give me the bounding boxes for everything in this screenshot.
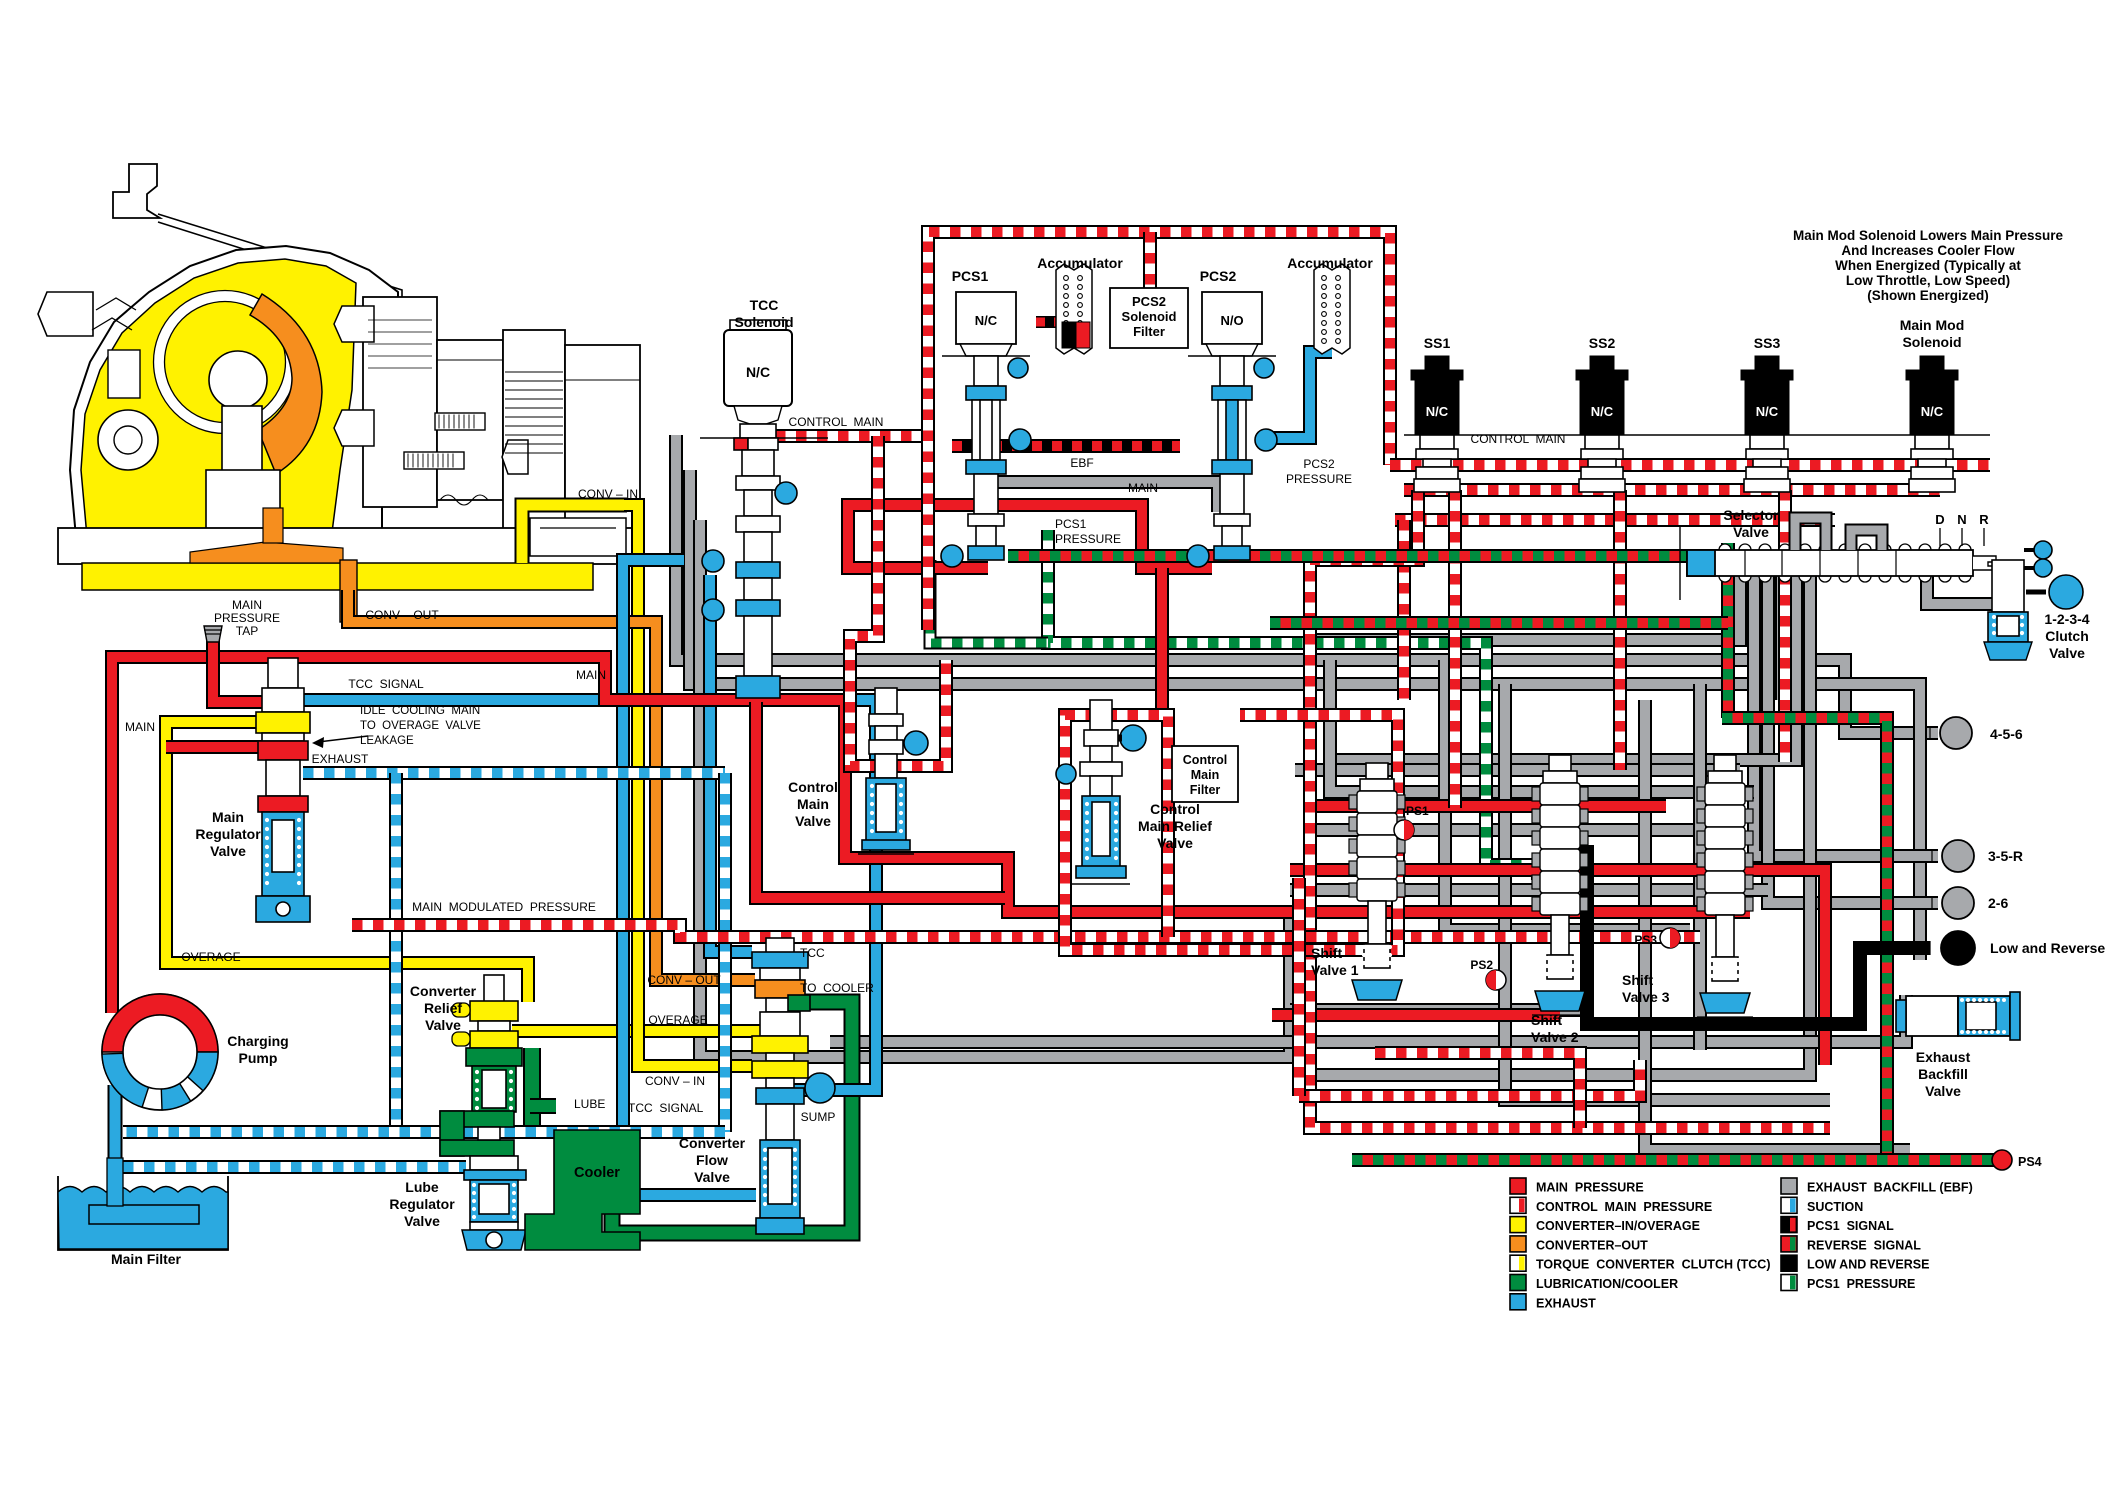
wire red SV2 y1015 [1272, 1008, 1560, 1022]
wire control main mid drop [1143, 232, 1157, 318]
wire suction dashed bottom [123, 1125, 725, 1139]
svg-text:Pump: Pump [239, 1050, 278, 1066]
svg-text:SS1: SS1 [1424, 335, 1451, 351]
wire exhaust dashed vert x725 [718, 773, 732, 1132]
svg-text:LEAKAGE: LEAKAGE [360, 735, 414, 747]
svg-text:TCC SIGNAL: TCC SIGNAL [628, 1101, 704, 1115]
valve 1-2-3-4 Clutch [1984, 541, 2083, 660]
svg-text:PCS1: PCS1 [952, 268, 989, 284]
circle Low and Reverse [1930, 931, 1975, 965]
svg-text:OVERAGE: OVERAGE [181, 950, 240, 964]
wire exhaust dashed vert x396 [389, 773, 403, 1132]
wire gray vert x1700 [1693, 684, 1707, 1050]
svg-text:Converter: Converter [410, 983, 477, 999]
solenoid PCS1 [941, 292, 1031, 567]
wire gray selector drop 3-5-R [1754, 576, 1938, 856]
valve Converter Flow [752, 938, 835, 1234]
svg-text:N/O: N/O [1220, 313, 1243, 328]
svg-text:CONV – OUT: CONV – OUT [365, 608, 439, 622]
svg-text:Solenoid: Solenoid [1122, 309, 1177, 324]
wire gray mid y770 [1295, 763, 1740, 777]
wire gray clutch valve feed [1927, 576, 1994, 604]
sensor PS3 [1660, 928, 1680, 948]
wire red MAIN to regulator [213, 655, 270, 702]
wire red tap stub [206, 640, 220, 658]
wire PCS1 pressure around PCS1 [930, 560, 1048, 643]
solenoid rail line [1404, 434, 1990, 436]
svg-text:Regulator: Regulator [195, 826, 261, 842]
torque converter cross-section [38, 164, 640, 622]
svg-text:Exhaust: Exhaust [1916, 1049, 1971, 1065]
svg-text:Main: Main [1191, 768, 1219, 782]
wire gray selector drop A [1310, 576, 1740, 770]
main pressure tap [204, 626, 222, 642]
svg-text:PS3: PS3 [1634, 933, 1657, 947]
svg-text:3-5-R: 3-5-R [1988, 848, 2023, 864]
wire PCS1 signal accumulator [1036, 322, 1064, 342]
svg-text:Filter: Filter [1133, 324, 1165, 339]
svg-text:MAIN: MAIN [125, 720, 155, 734]
wire gray selector drop B [1335, 576, 1796, 760]
labels right area [1424, 228, 2106, 1099]
sensor PS2 [1486, 970, 1506, 990]
wire gray mid y890 [1290, 883, 1768, 897]
svg-text:EXHAUST: EXHAUST [312, 752, 369, 766]
solenoid TCC [700, 320, 828, 698]
legend [1510, 1178, 1973, 1310]
svg-text:EBF: EBF [1070, 456, 1093, 470]
svg-text:Lube: Lube [405, 1179, 439, 1195]
svg-text:N/C: N/C [975, 313, 998, 328]
svg-text:Valve: Valve [694, 1169, 730, 1185]
svg-text:Main Mod: Main Mod [1900, 317, 1965, 333]
wire control main valve loop [850, 436, 946, 766]
wire gray mid y930 [1445, 660, 1690, 930]
svg-text:Main Relief: Main Relief [1138, 818, 1212, 834]
wire control main TCC [775, 429, 928, 443]
svg-text:TCC: TCC [750, 297, 779, 313]
valve Converter Relief [452, 975, 522, 1112]
svg-text:Valve: Valve [1157, 835, 1193, 851]
svg-text:EXHAUST: EXHAUST [1536, 1296, 1596, 1310]
svg-text:Main Filter: Main Filter [111, 1251, 182, 1267]
svg-text:N: N [1957, 512, 1966, 527]
wire yellow OVERAGE to flow valve [512, 1031, 760, 1040]
wire red MAIN trunk [112, 657, 1750, 1013]
accumulator 2 [1314, 264, 1350, 354]
wire gray mid y830 [1305, 823, 1725, 837]
valve Shift 2 [1532, 755, 1588, 1015]
svg-text:TCC: TCC [800, 946, 825, 960]
wire exhaust dashed loop top [303, 766, 725, 780]
svg-text:CONV – IN: CONV – IN [645, 1074, 705, 1088]
solenoid SS2 [1576, 356, 1628, 492]
svg-text:Main: Main [212, 809, 244, 825]
valve Control Main Relief [1056, 700, 1146, 884]
wire reverse signal y623 [1270, 616, 1728, 630]
svg-text:PS2: PS2 [1470, 958, 1493, 972]
svg-text:Low Throttle, Low Speed): Low Throttle, Low Speed) [1846, 273, 2010, 288]
svg-text:CONVERTER–IN/OVERAGE: CONVERTER–IN/OVERAGE [1536, 1219, 1700, 1233]
wire main modulated pressure [352, 925, 1700, 937]
circle 3-5-R [1932, 840, 1974, 872]
svg-text:Control: Control [788, 779, 838, 795]
wire control main SS row [1390, 458, 1990, 472]
wire blue exhaust x623 [623, 560, 756, 1195]
svg-text:Valve: Valve [425, 1017, 461, 1033]
svg-text:Selector: Selector [1723, 507, 1779, 523]
svg-text:N/C: N/C [1756, 404, 1779, 419]
svg-text:Control: Control [1183, 753, 1227, 767]
wire gray mid y792 [1330, 660, 1754, 792]
wire gray long y1075 [1296, 576, 1810, 1075]
svg-text:TORQUE CONVERTER CLUTCH (TCC: TORQUE CONVERTER CLUTCH (TCC) [1536, 1258, 1771, 1272]
wire gray mid y1010 [1290, 1003, 1587, 1017]
svg-text:PRESSURE: PRESSURE [214, 611, 280, 625]
wire reverse signal y540 [1008, 549, 1728, 563]
cooler [525, 1130, 640, 1250]
valve Shift 3 [1697, 755, 1753, 1017]
svg-text:TAP: TAP [236, 624, 258, 638]
wire PS4 line [1352, 1153, 1996, 1167]
arrow idle cooling [312, 736, 368, 748]
wire suction dashed to lube valve [123, 1160, 466, 1174]
wire green LUBE stub [530, 1098, 556, 1114]
svg-text:And Increases Cooler Flow: And Increases Cooler Flow [1841, 243, 2015, 258]
svg-text:Control: Control [1150, 801, 1200, 817]
wire control main to SV2 [1613, 490, 1627, 770]
svg-text:Regulator: Regulator [389, 1196, 455, 1212]
wire control main top loop [928, 232, 1390, 630]
box PCS2 Solenoid Filter [1110, 288, 1188, 348]
svg-text:PCS2: PCS2 [1200, 268, 1237, 284]
labels left area [111, 487, 874, 1267]
wire orange CONV-OUT [348, 590, 755, 980]
wire gray selector drop 2-6 [1768, 576, 1938, 903]
svg-text:TO OVERAGE VALVE: TO OVERAGE VALVE [360, 720, 481, 732]
svg-text:TO COOLER: TO COOLER [800, 981, 874, 995]
tank Main Filter [58, 1158, 228, 1250]
svg-text:Main: Main [797, 796, 829, 812]
solenoid SS1 [1411, 356, 1463, 492]
svg-text:Shift: Shift [1622, 972, 1653, 988]
wire blue TCC from solenoid [710, 575, 752, 952]
svg-text:TCC SIGNAL: TCC SIGNAL [348, 677, 424, 691]
pump Charging Pump [102, 994, 218, 1110]
wire red right y806 [1310, 799, 1666, 813]
svg-text:CONV – IN: CONV – IN [578, 487, 638, 501]
wire gray vert x1505 [1505, 684, 1830, 1100]
wire red MAIN short label [166, 740, 270, 754]
svg-text:PS1: PS1 [1406, 804, 1429, 818]
svg-text:Main Mod Solenoid Lowers Main: Main Mod Solenoid Lowers Main Pressure [1793, 228, 2064, 243]
svg-text:Cooler: Cooler [574, 1165, 620, 1181]
wire EBF gray long upper [676, 435, 1938, 733]
svg-text:2-6: 2-6 [1988, 895, 2008, 911]
svg-text:LUBRICATION/COOLER: LUBRICATION/COOLER [1536, 1277, 1678, 1291]
svg-text:CONV – OUT: CONV – OUT [647, 973, 721, 987]
wire control main to SV3 [1778, 490, 1792, 762]
svg-text:Relief: Relief [424, 1000, 462, 1016]
labels middle area [734, 255, 2041, 1169]
solenoid SS3 [1741, 356, 1793, 492]
wire EBF gray long lower [690, 470, 1920, 960]
svg-text:PCS1: PCS1 [1055, 517, 1087, 531]
circle PS4 [1992, 1150, 2012, 1170]
svg-text:PCS1 PRESSURE: PCS1 PRESSURE [1807, 1277, 1915, 1291]
wire yellow CONV-IN [624, 505, 752, 1066]
circle 2-6 [1932, 887, 1974, 919]
wire gray vert x1645 [1645, 700, 1910, 1150]
solenoid Main Mod [1906, 356, 1958, 492]
svg-text:IDLE COOLING MAIN: IDLE COOLING MAIN [360, 705, 480, 717]
wire exhaust dashed vert x396b [395, 1132, 397, 1135]
svg-text:N/C: N/C [746, 364, 770, 380]
accumulator 1 [1056, 264, 1092, 354]
valve Exhaust Backfill [1896, 992, 2020, 1040]
svg-text:N/C: N/C [1426, 404, 1449, 419]
circle 4-5-6 [1930, 717, 1972, 749]
svg-text:CONTROL MAIN PRESSURE: CONTROL MAIN PRESSURE [1536, 1200, 1712, 1214]
svg-text:MAIN PRESSURE: MAIN PRESSURE [1536, 1181, 1644, 1195]
svg-text:PS4: PS4 [2018, 1155, 2042, 1169]
svg-text:Low and Reverse: Low and Reverse [1990, 940, 2105, 956]
svg-text:Converter: Converter [679, 1135, 746, 1151]
wire control main bottom y1053 [1375, 1053, 1580, 1128]
wire gray long y1042 [830, 995, 1906, 1042]
wire control main row2 [1404, 483, 1940, 497]
valve Main Regulator [256, 658, 310, 922]
wire gray left sweep to shift valves [700, 520, 1290, 1057]
wire control main row3 [1395, 513, 1835, 527]
svg-text:N/C: N/C [1921, 404, 1944, 419]
svg-text:1-2-3-4: 1-2-3-4 [2044, 611, 2089, 627]
svg-text:Shift: Shift [1531, 1012, 1562, 1028]
svg-text:Valve 1: Valve 1 [1311, 962, 1359, 978]
svg-text:LUBE: LUBE [574, 1097, 605, 1111]
svg-text:EXHAUST BACKFILL (EBF): EXHAUST BACKFILL (EBF) [1807, 1181, 1973, 1195]
svg-text:MAIN: MAIN [232, 598, 262, 612]
svg-text:Valve: Valve [404, 1213, 440, 1229]
svg-text:Clutch: Clutch [2045, 628, 2089, 644]
svg-text:N/C: N/C [1591, 404, 1614, 419]
wire red right y870 [1290, 870, 1825, 1065]
svg-text:REVERSE SIGNAL: REVERSE SIGNAL [1807, 1238, 1921, 1252]
svg-text:Valve: Valve [795, 813, 831, 829]
wire blue TCC SIGNAL main-reg [300, 700, 876, 1090]
sensor PS1 [1394, 820, 1414, 840]
wire PCS1 signal column [979, 356, 993, 446]
wire gray EBF from PCS1 [985, 482, 1218, 512]
svg-text:CONTROL MAIN: CONTROL MAIN [789, 415, 884, 429]
wire red vert x1142 down [1155, 568, 1169, 715]
svg-text:Charging: Charging [227, 1033, 288, 1049]
svg-text:R: R [1979, 512, 1989, 527]
svg-text:Filter: Filter [1190, 783, 1221, 797]
svg-text:CONVERTER–OUT: CONVERTER–OUT [1536, 1238, 1648, 1252]
wire reverse signal selector vert [1721, 543, 1735, 718]
svg-text:PCS1 SIGNAL: PCS1 SIGNAL [1807, 1219, 1894, 1233]
svg-text:Solenoid: Solenoid [1902, 334, 1961, 350]
wire reverse signal main [1722, 718, 1887, 1160]
wire yellow OVERAGE left loop [166, 722, 528, 1002]
wire green TO COOLER [612, 1002, 852, 1233]
svg-text:PRESSURE: PRESSURE [1055, 532, 1121, 546]
svg-text:Valve: Valve [1925, 1083, 1961, 1099]
wire green relief-to-cooler [523, 1048, 541, 1130]
valve Selector [1680, 518, 1996, 600]
wire red MAIN to PCS2 [992, 505, 1212, 568]
svg-text:D: D [1935, 512, 1944, 527]
svg-text:Valve: Valve [210, 843, 246, 859]
svg-text:Valve 2: Valve 2 [1531, 1029, 1579, 1045]
svg-text:Shift: Shift [1311, 945, 1342, 961]
svg-text:Accumulator: Accumulator [1037, 255, 1123, 271]
svg-text:CONTROL MAIN: CONTROL MAIN [1471, 432, 1566, 446]
svg-text:SS2: SS2 [1589, 335, 1616, 351]
wire low and reverse black [1563, 852, 1930, 1024]
solenoid PCS2 [1187, 292, 1277, 567]
wire gray selector stub1 [1775, 576, 1789, 700]
svg-text:Valve: Valve [2049, 645, 2085, 661]
svg-text:Valve 3: Valve 3 [1622, 989, 1670, 1005]
svg-text:Solenoid: Solenoid [734, 314, 793, 330]
wire suction pump down leg [108, 1085, 123, 1195]
box Control Main Filter [1172, 746, 1238, 802]
svg-text:Flow: Flow [696, 1152, 728, 1168]
svg-text:SS3: SS3 [1754, 335, 1781, 351]
wire control main bottom y1096 [1299, 1060, 1640, 1096]
wire PCS1 pressure dashed [1048, 530, 1538, 880]
svg-text:Accumulator: Accumulator [1287, 255, 1373, 271]
svg-text:PRESSURE: PRESSURE [1286, 472, 1352, 486]
wire red PCS1 loop [848, 505, 990, 568]
wire control main relief loop [1065, 715, 1398, 950]
svg-text:OVERAGE: OVERAGE [648, 1013, 707, 1027]
svg-text:PCS2: PCS2 [1132, 294, 1166, 309]
svg-text:Backfill: Backfill [1918, 1066, 1968, 1082]
valve Shift 1 [1349, 763, 1405, 1004]
valve Lube Regulator [440, 1111, 526, 1250]
wire PCS1 signal lower [952, 439, 1180, 453]
svg-text:PCS2: PCS2 [1303, 457, 1335, 471]
wire red branch y898 [756, 702, 1005, 898]
svg-text:SUCTION: SUCTION [1807, 1200, 1863, 1214]
valve Control Main [858, 688, 928, 854]
svg-text:SUMP: SUMP [801, 1110, 836, 1124]
svg-text:MAIN: MAIN [1128, 481, 1158, 495]
svg-text:MAIN MODULATED PRESSURE: MAIN MODULATED PRESSURE [412, 900, 596, 914]
wire control main x1299 [1292, 878, 1306, 1096]
svg-text:4-5-6: 4-5-6 [1990, 726, 2023, 742]
svg-text:LOW AND REVERSE: LOW AND REVERSE [1807, 1258, 1929, 1272]
wire blue PCS2 to accumulator [1268, 352, 1332, 438]
svg-text:Valve: Valve [1733, 524, 1769, 540]
wire control main x1310 down [1310, 490, 1830, 1128]
wire control main ss1 left drop [1397, 520, 1411, 700]
svg-text:MAIN: MAIN [576, 668, 606, 682]
svg-text:(Shown Energized): (Shown Energized) [1867, 288, 1989, 303]
wire control main to SV1 [1448, 490, 1462, 808]
svg-text:When Energized (Typically at: When Energized (Typically at [1835, 258, 2021, 273]
